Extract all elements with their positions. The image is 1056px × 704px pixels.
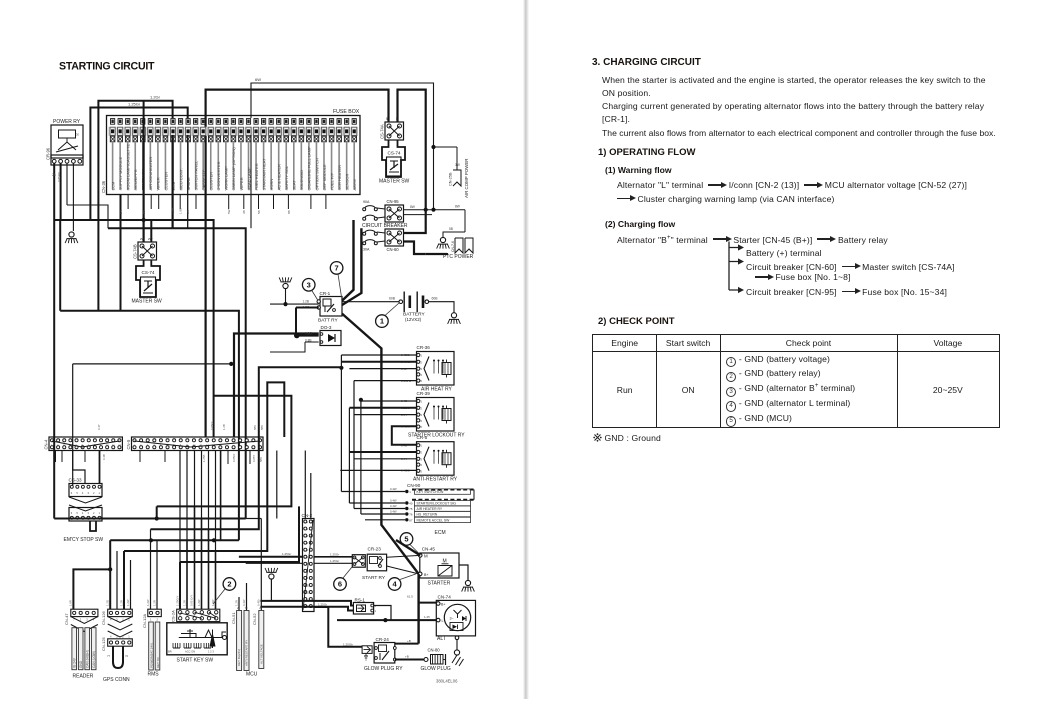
- wire feeds to RS-1: [271, 600, 353, 602]
- circled 4: [388, 578, 401, 591]
- wire bus x220 down: [220, 451, 222, 541]
- svg-text:1: 1: [99, 491, 101, 495]
- svg-text:KEY 'IG': KEY 'IG': [156, 656, 160, 668]
- wire CN-5 to CN-2 feeds: [304, 451, 306, 519]
- svg-text:CS-33: CS-33: [69, 478, 82, 483]
- wire POWER RY pin1 down: [53, 163, 55, 519]
- wire bus x276 down: [276, 451, 278, 519]
- svg-text:CN-51: CN-51: [231, 612, 236, 624]
- svg-text:6: 6: [338, 580, 342, 589]
- svg-text:1 2 3: 1 2 3: [208, 650, 214, 654]
- svg-text:(12VX2): (12VX2): [405, 317, 422, 322]
- ground right of starter: [465, 580, 470, 585]
- svg-text:START RY: START RY: [362, 575, 386, 581]
- svg-text:380L4EL06: 380L4EL06: [436, 679, 458, 684]
- svg-text:2: 2: [421, 360, 423, 364]
- svg-text:CN-80: CN-80: [428, 648, 441, 653]
- connector CN-25B AIR COMP POWER: [453, 170, 461, 186]
- svg-text:CIGAR/JRE FULL LAMP: CIGAR/JRE FULL LAMP: [307, 146, 312, 190]
- fuse 20 FUEL HEATER: [254, 119, 258, 125]
- svg-text:4: 4: [82, 511, 84, 515]
- wire CS-74A pin2 to breaker bus: [398, 90, 426, 204]
- svg-text:2: 2: [93, 491, 95, 495]
- wire CS-74B right pin up: [150, 220, 152, 242]
- wire fuse 11 down: [187, 135, 189, 228]
- wire fuse 11 tail: [187, 135, 189, 228]
- svg-text:0.85RG: 0.85RG: [57, 171, 61, 182]
- junction 6W lower: [431, 208, 435, 212]
- wire fuse 9 down: [172, 135, 174, 228]
- wire gps feeds: [116, 551, 118, 609]
- svg-text:MASTER SW: MASTER SW: [379, 179, 410, 185]
- svg-text:1: 1: [421, 400, 423, 404]
- wire bus y529: [151, 367, 342, 529]
- wire feed CR-1 from bus: [342, 220, 354, 301]
- fuse 26 SOLENOID: [299, 119, 303, 125]
- svg-text:1.2W: 1.2W: [211, 599, 215, 606]
- wire glow feed: [336, 620, 338, 647]
- ground right of battery: [451, 313, 456, 318]
- svg-text:5: 5: [76, 511, 78, 515]
- fuse 3 ROOM LAMP/CASSETTE: [126, 119, 130, 125]
- svg-text:CN-4: CN-4: [44, 439, 49, 449]
- svg-text:IG 24V: IG 24V: [73, 657, 77, 668]
- svg-text:2: 2: [307, 528, 309, 531]
- wire cn4 stubs: [55, 451, 57, 463]
- fuse 19 HEAD LAMP: [246, 119, 250, 125]
- svg-text:ECM: ECM: [435, 530, 446, 536]
- svg-text:3B: 3B: [242, 210, 246, 214]
- svg-text:C CONVERTER: C CONVERTER: [216, 161, 221, 190]
- svg-text:1.25B: 1.25B: [202, 455, 206, 462]
- wire feed CR-1 from breaker bus: [342, 228, 361, 305]
- svg-text:SPARE: SPARE: [186, 177, 191, 191]
- svg-text:5: 5: [421, 379, 423, 383]
- wire reader feed: [73, 569, 110, 609]
- svg-text:77: 77: [107, 654, 111, 658]
- svg-text:SENSOR: SENSOR: [344, 173, 349, 190]
- wire POWER RY pin3 down: [66, 163, 68, 205]
- svg-text:CN-126: CN-126: [101, 610, 106, 625]
- svg-text:3: 3: [307, 535, 309, 538]
- svg-text:CABIN LAMP (OPTION): CABIN LAMP (OPTION): [231, 147, 236, 191]
- circled 2: [223, 578, 236, 591]
- svg-text:START KEY SW: START KEY SW: [177, 658, 214, 664]
- svg-text:CS-74A: CS-74A: [380, 124, 385, 139]
- svg-text:75: 75: [409, 507, 413, 511]
- fuse 22 HORN: [269, 119, 273, 125]
- svg-text:3: 3: [307, 280, 311, 289]
- svg-text:1: 1: [150, 618, 152, 622]
- svg-text:5B: 5B: [449, 227, 453, 231]
- svg-text:1.2R: 1.2R: [119, 600, 123, 606]
- svg-text:SEAT: SEAT: [292, 180, 297, 191]
- svg-text:POWER(BAT 24V): POWER(BAT 24V): [149, 643, 153, 668]
- wire master bus y220: [54, 220, 213, 437]
- svg-text:7: 7: [335, 264, 339, 273]
- svg-text:DO-3: DO-3: [321, 325, 332, 330]
- svg-text:CN-60: CN-60: [387, 247, 400, 252]
- svg-text:3: 3: [421, 413, 423, 417]
- svg-text:4: 4: [307, 542, 309, 545]
- svg-text:CN-45: CN-45: [422, 547, 436, 552]
- svg-text:5B: 5B: [142, 210, 146, 214]
- svg-text:KEY IG(24V): KEY IG(24V): [237, 649, 241, 666]
- svg-text:2: 2: [157, 618, 159, 622]
- fuse 24 SAFETY SOL: [284, 119, 288, 125]
- circled 5: [400, 533, 413, 546]
- fuse 10 MCU CONT.: [178, 119, 182, 125]
- svg-text:REMOTE ACCEL SW: REMOTE ACCEL SW: [417, 518, 451, 522]
- svg-text:3~: 3~: [450, 617, 454, 621]
- fuse output stubs: [127, 195, 129, 210]
- svg-text:1: 1: [99, 511, 101, 515]
- svg-text:BR: BR: [168, 650, 172, 654]
- svg-text:0.85Or: 0.85Or: [210, 421, 214, 430]
- svg-text:1: 1: [421, 444, 423, 448]
- wire fuse 20 tail: [250, 195, 252, 229]
- svg-text:72: 72: [125, 654, 129, 658]
- wire CR-24 out to B+ bus: [395, 643, 419, 645]
- svg-text:6: 6: [71, 511, 73, 515]
- svg-text:61.5: 61.5: [407, 595, 413, 599]
- svg-text:30A: 30A: [363, 248, 370, 252]
- svg-text:60B: 60B: [389, 297, 396, 301]
- svg-text:CN-90: CN-90: [407, 483, 421, 488]
- fuse 30 FUEL P/P: [329, 119, 333, 125]
- svg-text:1.2W: 1.2W: [146, 599, 150, 606]
- svg-text:1: 1: [307, 521, 309, 524]
- circled 3: [302, 279, 315, 292]
- svg-text:CLUSTER: CLUSTER: [163, 172, 168, 191]
- fuse 25 SEAT: [292, 119, 296, 125]
- fuse box CN-36: [107, 116, 361, 195]
- svg-text:1.25Gb: 1.25Gb: [343, 642, 353, 646]
- svg-text:0.85Or: 0.85Or: [232, 453, 236, 462]
- wire bus y506: [157, 396, 292, 507]
- svg-text:4: 4: [421, 373, 423, 377]
- svg-text:1.25Gr: 1.25Gr: [330, 552, 339, 556]
- fuse 31 SCR HEATER: [337, 119, 341, 125]
- wire CN-2 to CR-23: [314, 556, 352, 558]
- svg-text:DEF MODULE: DEF MODULE: [322, 164, 327, 191]
- svg-text:1.2W: 1.2W: [197, 599, 201, 606]
- svg-text:WIPER: WIPER: [156, 177, 161, 190]
- wire left bus x72 down: [72, 364, 74, 486]
- junction reader feed: [108, 567, 112, 571]
- svg-text:ACC ON: ACC ON: [185, 650, 195, 654]
- fuse 21 START/AIR HEAT: [262, 119, 266, 125]
- circled 7: [330, 262, 343, 275]
- fuse 1 ECM: [111, 119, 115, 125]
- wire relay feed verticals: [340, 355, 342, 492]
- fuse before CR-24: [362, 646, 372, 654]
- svg-text:CN-36: CN-36: [101, 180, 106, 193]
- svg-text:5: 5: [307, 549, 309, 552]
- svg-text:L: L: [442, 619, 444, 623]
- svg-text:CAN (HIGH): CAN (HIGH): [86, 650, 90, 668]
- svg-text:MCU CONT.: MCU CONT.: [178, 168, 183, 190]
- wire CR-5 pin feeds: [349, 451, 416, 453]
- svg-text:GLOW PLUG: GLOW PLUG: [421, 666, 451, 672]
- svg-text:3: 3: [87, 511, 89, 515]
- svg-text:1: 1: [375, 609, 377, 613]
- fuse 4 MCU/EPPR: [133, 119, 137, 125]
- wire bus y518: [54, 518, 157, 520]
- svg-text:1.2Gr: 1.2Gr: [150, 95, 161, 100]
- svg-text:M: M: [424, 553, 428, 558]
- svg-text:0.85Y: 0.85Y: [252, 455, 256, 462]
- svg-text:START/AIR HEAT: START/AIR HEAT: [261, 158, 266, 191]
- svg-text:6W: 6W: [255, 77, 261, 82]
- wire starter B+ down to alt B+ and glow: [417, 574, 419, 644]
- svg-text:READER: READER: [73, 674, 94, 680]
- svg-text:1.2G: 1.2G: [106, 600, 110, 606]
- wire bus y551: [124, 382, 284, 551]
- svg-text:EM'CY STOP SW: EM'CY STOP SW: [64, 537, 104, 543]
- svg-text:ECM: ECM: [110, 182, 115, 191]
- svg-text:8W: 8W: [455, 205, 460, 209]
- wire CR-1 to starter diagonal: [342, 314, 419, 574]
- svg-text:2W: 2W: [140, 237, 145, 241]
- svg-text:CN-74: CN-74: [438, 595, 452, 600]
- wire CR-36 pin feeds: [361, 0, 363, 228]
- svg-text:CS-74B: CS-74B: [133, 244, 138, 259]
- svg-text:0.85 OrY: 0.85 OrY: [189, 595, 193, 606]
- fuse 33 AAVM: [352, 119, 356, 125]
- svg-text:CS-74: CS-74: [388, 151, 401, 156]
- wire CR-23 to starter M: [387, 555, 421, 557]
- svg-text:60B: 60B: [432, 297, 439, 301]
- svg-text:B+: B+: [441, 603, 446, 607]
- svg-text:5: 5: [421, 469, 423, 473]
- wire fuse 20 down: [250, 135, 252, 195]
- wire breaker bus y228: [108, 227, 173, 229]
- wire bus to fuse box no5: [90, 108, 187, 221]
- svg-text:GND: GND: [79, 660, 83, 668]
- svg-text:5W: 5W: [227, 209, 231, 214]
- page seam: [523, 0, 529, 699]
- fuse 2 SUPPLY MODULE: [118, 119, 122, 125]
- wire starter ground: [459, 565, 468, 581]
- junction y540 right: [212, 538, 216, 542]
- svg-text:HS_RETURN: HS_RETURN: [417, 513, 438, 517]
- svg-text:CR-96: CR-96: [46, 147, 51, 160]
- wire mcu feeds: [238, 597, 240, 611]
- svg-text:STARTER: STARTER: [428, 581, 451, 587]
- svg-text:10: 10: [193, 444, 196, 446]
- svg-text:10: 10: [106, 444, 109, 446]
- wire bus y562: [180, 506, 299, 562]
- left page: STARTING CIRCUIT schematic: [0, 0, 530, 704]
- svg-text:MCU: MCU: [246, 672, 258, 678]
- svg-text:STARTER/LOCKOUT SIG: STARTER/LOCKOUT SIG: [417, 502, 457, 506]
- wire ECM pin feeds: [341, 491, 405, 493]
- wire rms feeds: [150, 529, 152, 609]
- svg-text:CR-24: CR-24: [376, 637, 390, 642]
- junction y518: [155, 516, 159, 520]
- svg-text:5: 5: [386, 117, 388, 121]
- wire CN-4 to CS-33: [73, 451, 85, 484]
- fuse 27 CIGAR/JRE FULL LAMP: [307, 119, 311, 125]
- svg-text:1.25Gr: 1.25Gr: [282, 552, 291, 556]
- circled 1: [376, 315, 389, 328]
- wire PTC feed: [426, 253, 447, 254]
- ground inverted left of battery: [283, 283, 288, 288]
- svg-text:1.8R: 1.8R: [69, 600, 73, 606]
- svg-text:CN-7-6: CN-7-6: [451, 241, 455, 252]
- svg-text:2: 2: [93, 511, 95, 515]
- svg-text:B+: B+: [424, 573, 429, 577]
- svg-text:1: 1: [128, 635, 130, 639]
- junction CR-36: [339, 366, 343, 370]
- svg-text:CS-74: CS-74: [142, 270, 155, 275]
- svg-text:CIRCUIT BREAKER: CIRCUIT BREAKER: [362, 223, 408, 229]
- svg-text:CLUSTER: CLUSTER: [209, 172, 214, 191]
- svg-text:CR-5: CR-5: [417, 435, 428, 440]
- svg-text:2: 2: [421, 406, 423, 410]
- fuse 29 DEF MODULE: [322, 119, 326, 125]
- svg-text:0.4W: 0.4W: [390, 499, 397, 503]
- circuit breaker CN-60: [364, 230, 376, 233]
- svg-text:9: 9: [307, 577, 309, 580]
- svg-text:MASTER SW: MASTER SW: [132, 299, 163, 305]
- svg-text:1: 1: [409, 490, 411, 494]
- junction battery relay coil: [283, 302, 287, 306]
- wire fuse 3 down: [120, 195, 122, 311]
- svg-text:8W: 8W: [410, 205, 415, 209]
- fuse 32 SENSOR: [345, 119, 349, 125]
- svg-text:3: 3: [421, 367, 423, 371]
- svg-text:ANTI RESTART RY: ANTI RESTART RY: [245, 640, 249, 666]
- junction fuse5/master bus: [142, 218, 146, 222]
- svg-text:5B: 5B: [257, 210, 261, 214]
- svg-text:SOLENOID: SOLENOID: [299, 170, 304, 191]
- ground CR-24: [364, 656, 368, 660]
- wire thick bus to CS-74A: [206, 90, 389, 437]
- svg-text:FUSE BOX: FUSE BOX: [333, 109, 360, 115]
- svg-text:12: 12: [118, 444, 121, 446]
- fuse 17 CABIN LAMP (OPTION): [231, 119, 235, 125]
- svg-text:CN-5: CN-5: [126, 439, 131, 449]
- svg-text:STARTING CIRCUIT: STARTING CIRCUIT: [59, 61, 155, 73]
- junction CR-39: [359, 398, 363, 402]
- svg-text:SAFETY SOL: SAFETY SOL: [284, 165, 289, 190]
- svg-text:CR-39: CR-39: [417, 391, 431, 396]
- svg-text:AC & HEATER: AC & HEATER: [277, 164, 282, 190]
- fuse 11 SPARE: [186, 119, 190, 125]
- svg-text:+B: +B: [407, 639, 411, 643]
- connector CN-4: [49, 437, 122, 451]
- svg-text:ROOM LAMP/CASSETTE: ROOM LAMP/CASSETTE: [126, 143, 131, 190]
- svg-text:CR-23: CR-23: [368, 547, 382, 552]
- svg-text:0.4B: 0.4B: [102, 454, 106, 460]
- fuse 23 AC & HEATER: [277, 119, 281, 125]
- svg-text:GPS CONN: GPS CONN: [103, 677, 130, 683]
- junction y540 left: [149, 538, 153, 542]
- wire CN-60 to master bus: [404, 204, 426, 233]
- svg-text:OPTION SWITCH: OPTION SWITCH: [314, 158, 319, 190]
- svg-text:ALT: ALT: [437, 636, 446, 642]
- fuse 16 WORK LAMP: [224, 119, 228, 125]
- svg-text:SCR HEATER: SCR HEATER: [337, 165, 342, 191]
- svg-text:AIR HEATER RY: AIR HEATER RY: [417, 507, 443, 511]
- fuse 13 CASSETTE: [201, 119, 205, 125]
- svg-text:AIR CON/HEATER: AIR CON/HEATER: [148, 157, 153, 191]
- wire CN-95 8W right: [404, 209, 466, 211]
- svg-text:0.4W: 0.4W: [242, 599, 246, 606]
- svg-text:3: 3: [86, 618, 88, 622]
- svg-text:CN-95: CN-95: [387, 199, 400, 204]
- fuse 18 WIPER: [239, 119, 243, 125]
- svg-text:AIR COMP POWER: AIR COMP POWER: [464, 159, 469, 198]
- svg-text:40: 40: [409, 502, 413, 506]
- svg-text:GLOW PLUG RY: GLOW PLUG RY: [364, 666, 403, 672]
- wire L line: [337, 619, 436, 621]
- wire alt ground: [456, 640, 458, 650]
- fuse 6 AIR CON/HEATER: [148, 119, 152, 125]
- wire CR-24 to glow plug: [395, 659, 424, 661]
- svg-text:CAN (LOW): CAN (LOW): [92, 651, 96, 668]
- svg-text:KEY SWITCH'ON': KEY SWITCH'ON': [417, 490, 445, 494]
- fuse 28 OPTION SWITCH: [314, 119, 318, 125]
- junction 8W: [424, 208, 428, 212]
- svg-text:CR-1: CR-1: [320, 291, 331, 296]
- circled 6: [334, 578, 347, 591]
- svg-text:5B5: 5B5: [253, 425, 257, 430]
- svg-text:WIPER: WIPER: [239, 177, 244, 190]
- wire CN-2 feeds left: [213, 540, 215, 556]
- wire M feed diagonal: [396, 540, 420, 555]
- svg-text:+B: +B: [405, 655, 409, 659]
- wire POWER RY pin4 to ground: [72, 163, 74, 231]
- svg-text:2: 2: [227, 580, 231, 589]
- svg-text:87: 87: [409, 518, 413, 522]
- wire CN-60 lower right: [404, 242, 426, 255]
- fuse 7 WIPER: [156, 119, 160, 125]
- wire CR-39 pin feeds: [361, 400, 417, 402]
- svg-text:8B: 8B: [287, 210, 291, 214]
- svg-text:FUEL P/P: FUEL P/P: [329, 173, 334, 191]
- wire bus y540: [110, 539, 239, 541]
- svg-text:CN-25B: CN-25B: [449, 172, 453, 186]
- svg-text:CR-36: CR-36: [417, 345, 431, 350]
- svg-text:2: 2: [421, 451, 423, 455]
- svg-text:5: 5: [76, 491, 78, 495]
- fuse 12 SWITCH PANEL: [194, 119, 198, 125]
- connector PTC POWER: [440, 237, 445, 242]
- svg-text:MCU/EPPR: MCU/EPPR: [133, 169, 138, 190]
- svg-text:90A: 90A: [363, 200, 370, 204]
- svg-text:4: 4: [421, 463, 423, 467]
- svg-text:RMS: RMS: [148, 672, 160, 678]
- svg-text:FUEL HEATER: FUEL HEATER: [254, 163, 259, 190]
- wire battery bus y310: [59, 220, 61, 311]
- wire 6W top bus: [251, 83, 434, 210]
- svg-text:1.25GrY: 1.25GrY: [175, 595, 179, 606]
- fuse 9 ECM: [171, 119, 175, 125]
- fuse 8 CLUSTER: [163, 119, 167, 125]
- svg-text:76: 76: [409, 513, 413, 517]
- svg-text:3: 3: [116, 635, 118, 639]
- svg-text:4: 4: [82, 491, 84, 495]
- svg-text:0.4W: 0.4W: [390, 510, 397, 514]
- wire start key feeds: [179, 562, 181, 609]
- svg-text:5: 5: [396, 117, 398, 121]
- svg-text:CASSETTE: CASSETTE: [201, 169, 206, 190]
- svg-text:CS-2A: CS-2A: [171, 610, 176, 622]
- svg-text:6: 6: [71, 491, 73, 495]
